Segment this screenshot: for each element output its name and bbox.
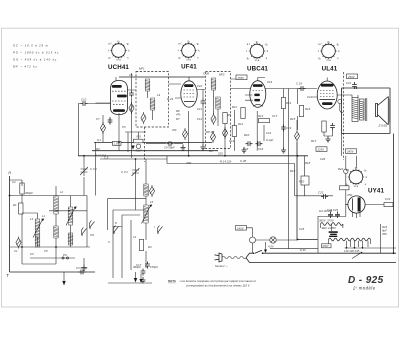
svg-text:110 130 245: 110 130 245 [344,249,360,253]
svg-text:L1: L1 [42,214,46,218]
svg-text:UY41: UY41 [368,188,384,195]
svg-text:245V: 245V [346,150,355,154]
svg-text:II: II [108,240,110,244]
svg-text:C3: C3 [30,252,34,256]
svg-text:R.5.: R.5. [137,135,142,139]
svg-text:MOT: MOT [323,244,330,248]
svg-text:110 130 245: 110 130 245 [319,210,333,213]
svg-text:R8: R8 [209,149,213,153]
svg-text:C10: C10 [81,98,87,102]
svg-text:C16: C16 [258,147,264,151]
svg-text:C10: C10 [197,84,203,88]
svg-text:C.8: C.8 [104,156,109,160]
svg-text:150pF: 150pF [150,265,158,269]
svg-text:MF ~ 472 kc: MF ~ 472 kc [13,65,38,69]
svg-text:OC ~ 18,5 à 29 m: OC ~ 18,5 à 29 m [13,44,49,48]
svg-text:C6: C6 [129,73,133,77]
svg-text:0,1: 0,1 [97,138,101,142]
svg-text:C17: C17 [272,114,278,118]
svg-text:L5: L5 [150,200,154,204]
svg-text:: Les tensions marquées sont p: : Les tensions marquées sont prises par … [179,279,256,283]
svg-text:PO ~ 1880 kc à 515 kc: PO ~ 1880 kc à 515 kc [13,51,59,55]
svg-text:C25: C25 [299,227,305,231]
svg-text:6,3V: 6,3V [385,197,391,201]
svg-text:C23: C23 [318,191,324,195]
svg-text:R22: R22 [338,167,344,171]
svg-text:47k: 47k [176,113,181,117]
svg-text:C13: C13 [229,139,235,143]
svg-text:R15: R15 [290,117,296,121]
svg-text:P: P [115,221,117,225]
svg-text:2ᵗ modèle: 2ᵗ modèle [352,285,376,290]
svg-text:R7: R7 [176,117,180,121]
svg-text:C.V.2: C.V.2 [121,170,128,174]
svg-text:L3: L3 [157,93,161,97]
svg-text:UL41: UL41 [322,66,338,73]
svg-text:250V: 250V [347,75,356,79]
svg-text:47Ω: 47Ω [186,161,192,165]
svg-text:R11: R11 [232,105,237,109]
svg-text:Z-5,6Ω: Z-5,6Ω [378,124,389,128]
svg-text:R20: R20 [299,180,305,184]
svg-text:50pF: 50pF [136,149,143,153]
svg-text:C·26: C·26 [203,72,210,76]
svg-text:C2: C2 [12,180,16,184]
svg-text:C.V.1: C.V.1 [90,167,97,171]
svg-text:220: 220 [217,152,223,156]
svg-text:R16: R16 [305,107,311,111]
svg-text:R13: R13 [258,114,264,118]
svg-text:C14: C14 [266,131,272,135]
svg-text:C9 50pF: C9 50pF [164,146,175,150]
svg-text:A: A [7,170,11,175]
svg-text:R19: R19 [290,169,296,173]
svg-text:C.18: C.18 [296,82,302,86]
svg-text:C4 0,1µF: C4 0,1µF [76,266,88,270]
svg-text:47Ω: 47Ω [347,193,353,197]
svg-text:C5: C5 [122,125,126,129]
svg-text:R.14 22k: R.14 22k [220,159,232,163]
svg-text:SEC 2x350: SEC 2x350 [322,226,337,230]
svg-text:225V: 225V [317,148,326,152]
svg-text:R1: R1 [13,203,17,207]
svg-text:C11: C11 [197,107,202,111]
svg-text:450: 450 [382,232,387,236]
svg-text:47k: 47k [172,128,177,132]
svg-text:C5: C5 [44,249,48,253]
svg-text:0,1µF: 0,1µF [266,138,273,142]
svg-text:C14: C14 [267,80,273,84]
svg-text:C7: C7 [96,117,100,121]
svg-text:MF1: MF1 [139,67,145,71]
svg-text:460pF: 460pF [133,265,141,269]
svg-text:200pF: 200pF [24,191,33,195]
svg-text:155V: 155V [238,76,246,80]
svg-text:UCH41: UCH41 [108,64,129,71]
svg-text:UBC41: UBC41 [247,66,268,73]
svg-text:R18: R18 [305,161,311,165]
svg-text:C15: C15 [243,147,249,151]
svg-text:MF2: MF2 [219,73,225,77]
svg-text:R10: R10 [244,133,250,137]
svg-text:140V: 140V [237,226,245,230]
svg-text:L2: L2 [60,190,64,194]
svg-text:C22: C22 [346,81,352,85]
svg-text:R9: R9 [228,113,232,117]
svg-text:UF41: UF41 [181,64,197,71]
svg-text:correspondent au fonctionnemen: correspondent au fonctionnement sur rése… [186,284,251,288]
svg-text:NOTA: NOTA [168,279,176,283]
svg-text:Secteur ∼: Secteur ∼ [215,264,228,268]
svg-text:C12: C12 [197,117,203,121]
svg-text:R4: R4 [148,245,152,249]
svg-text:R8 1M: R8 1M [206,130,215,134]
svg-text:R17: R17 [311,139,317,143]
svg-text:R12: R12 [238,122,244,126]
svg-text:C21: C21 [307,95,313,99]
svg-text:R14: R14 [286,101,292,105]
svg-text:R3: R3 [96,147,100,151]
svg-text:R·23: R·23 [167,97,174,101]
svg-text:L3: L3 [30,217,34,221]
svg-text:L4: L4 [133,235,137,239]
svg-text:C·28: C·28 [240,159,247,163]
svg-text:GO ~ 408 kc à 140 kc: GO ~ 408 kc à 140 kc [13,58,57,62]
svg-text:C1: C1 [14,249,18,253]
svg-text:380V 375V: 380V 375V [319,219,335,223]
svg-text:C26: C26 [320,157,326,161]
svg-text:C19: C19 [286,126,292,130]
